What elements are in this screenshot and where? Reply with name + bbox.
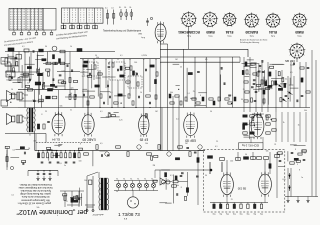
svg-text:25: 25	[45, 111, 47, 113]
svg-text:abf5-42737: abf5-42737	[92, 213, 104, 215]
svg-text:SL: SL	[124, 7, 126, 9]
svg-text:50µ: 50µ	[240, 213, 243, 215]
svg-text:25: 25	[216, 141, 218, 143]
svg-text:5n: 5n	[64, 165, 66, 167]
svg-text:Alle Spannungen gemessen: Alle Spannungen gemessen	[20, 198, 49, 201]
svg-text:25: 25	[243, 89, 245, 91]
svg-text:8: 8	[181, 187, 182, 189]
svg-text:EL84: EL84	[269, 30, 277, 34]
svg-text:0,25: 0,25	[62, 70, 66, 72]
svg-text:0,1: 0,1	[187, 93, 190, 95]
svg-text:0,1: 0,1	[22, 46, 25, 48]
svg-text:30: 30	[46, 151, 48, 153]
svg-text:Drucktastenschalter mit Well: Drucktastenschalter mit Wellen-	[19, 183, 52, 186]
svg-text:50µ: 50µ	[233, 213, 236, 215]
svg-text:10k: 10k	[145, 143, 148, 145]
svg-text:30: 30	[103, 209, 105, 211]
svg-text:2: 2	[260, 68, 261, 70]
svg-text:8: 8	[295, 149, 296, 151]
svg-text:25: 25	[231, 199, 233, 201]
svg-text:100: 100	[79, 161, 82, 163]
svg-text:0,1: 0,1	[100, 111, 103, 113]
svg-text:0,5: 0,5	[33, 141, 36, 143]
svg-text:EABC 80: EABC 80	[82, 137, 95, 141]
svg-text:0,1: 0,1	[230, 95, 233, 97]
svg-text:30: 30	[241, 99, 243, 101]
svg-text:Schaltung der Heizung: Schaltung der Heizung	[240, 41, 259, 44]
svg-text:50k: 50k	[37, 207, 40, 209]
svg-text:100: 100	[230, 160, 233, 162]
svg-text:ECH 81 1-fq: ECH 81 1-fq	[242, 144, 259, 148]
svg-text:5n: 5n	[116, 191, 118, 193]
svg-text:DM: DM	[138, 32, 142, 34]
svg-text:EABC80: EABC80	[245, 30, 258, 34]
svg-text:0,5: 0,5	[205, 59, 208, 61]
svg-text:30: 30	[304, 153, 306, 155]
svg-text:25: 25	[193, 91, 195, 93]
svg-text:SL: SL	[144, 178, 146, 180]
svg-text:10: 10	[140, 92, 142, 94]
svg-text:SL: SL	[119, 7, 121, 9]
svg-text:EL 84: EL 84	[52, 137, 60, 141]
svg-text:EM80: EM80	[206, 30, 215, 34]
svg-text:WA: WA	[2, 60, 6, 63]
svg-text:100: 100	[134, 62, 137, 64]
svg-text:25: 25	[37, 55, 39, 57]
svg-text:5n: 5n	[29, 135, 31, 137]
svg-text:50k: 50k	[71, 87, 74, 89]
svg-text:4-fq: 4-fq	[142, 36, 145, 38]
svg-text:50µ: 50µ	[226, 213, 229, 215]
svg-text:8: 8	[80, 144, 81, 146]
svg-text:0,5: 0,5	[13, 149, 16, 151]
svg-text:50µ: 50µ	[219, 213, 222, 215]
svg-text:100: 100	[84, 180, 87, 182]
svg-text:8: 8	[41, 114, 42, 116]
svg-text:50k: 50k	[266, 150, 269, 152]
svg-text:W.E: W.E	[7, 61, 12, 64]
svg-text:5n: 5n	[301, 177, 303, 179]
svg-text:50k: 50k	[60, 106, 63, 108]
svg-text:0,1: 0,1	[105, 8, 108, 10]
svg-text:1 73/08 73: 1 73/08 73	[118, 212, 140, 217]
svg-text:50µ: 50µ	[260, 213, 263, 215]
svg-text:1k: 1k	[6, 79, 8, 81]
svg-text:5n: 5n	[70, 110, 72, 112]
svg-text:EM80: EM80	[295, 30, 304, 34]
svg-text:0,1: 0,1	[215, 146, 218, 148]
svg-text:5k: 5k	[70, 93, 72, 95]
svg-text:8: 8	[299, 169, 300, 171]
svg-text:SL: SL	[137, 178, 139, 180]
svg-text:8: 8	[200, 95, 201, 97]
svg-text:0,1: 0,1	[11, 194, 14, 196]
svg-text:0,5: 0,5	[100, 143, 103, 145]
svg-text:1-fq: 1-fq	[290, 65, 293, 67]
svg-text:10: 10	[230, 193, 232, 195]
svg-text:50µ: 50µ	[246, 213, 249, 215]
svg-text:1k: 1k	[298, 124, 300, 126]
svg-text:0,1: 0,1	[170, 175, 173, 177]
svg-text:0,25: 0,25	[282, 179, 286, 181]
svg-text:50µ: 50µ	[253, 213, 256, 215]
svg-text:5k: 5k	[58, 146, 60, 148]
svg-text:50µ: 50µ	[213, 213, 216, 215]
svg-text:Tastenbeleuchtung und Skalenla: Tastenbeleuchtung und Skalenlampen	[103, 29, 142, 32]
svg-text:8: 8	[71, 89, 72, 91]
svg-text:0,5: 0,5	[49, 51, 52, 53]
svg-text:0,1: 0,1	[176, 118, 179, 120]
svg-text:25: 25	[274, 144, 276, 146]
svg-text:50k: 50k	[304, 110, 307, 112]
svg-text:0,1: 0,1	[111, 8, 114, 10]
svg-text:1k: 1k	[283, 122, 285, 124]
svg-text:0,1: 0,1	[120, 55, 123, 57]
svg-text:50k: 50k	[33, 100, 36, 102]
svg-text:5n: 5n	[27, 83, 29, 85]
svg-text:50: 50	[245, 154, 247, 156]
svg-text:mit Stahlrohren der E-Serie: mit Stahlrohren der E-Serie.	[21, 195, 50, 198]
svg-text:0,1: 0,1	[285, 79, 288, 81]
svg-text:SB 330: SB 330	[237, 187, 246, 191]
svg-text:EBF 89: EBF 89	[185, 138, 196, 142]
svg-text:50k: 50k	[170, 92, 173, 94]
svg-text:per „Dominante W102”: per „Dominante W102”	[16, 208, 87, 215]
svg-text:0,1: 0,1	[110, 92, 113, 94]
svg-text:0,5: 0,5	[59, 163, 62, 165]
svg-text:SL: SL	[130, 178, 132, 180]
svg-text:50k: 50k	[96, 57, 99, 59]
svg-text:SL: SL	[123, 178, 125, 180]
svg-text:Ansicht der Sockel von der: Ansicht der Sockel von der Seite	[240, 39, 267, 42]
svg-text:0,1: 0,1	[99, 190, 102, 192]
svg-text:0,1: 0,1	[42, 85, 45, 87]
svg-text:SL: SL	[116, 178, 118, 180]
svg-text:SB 333: SB 333	[285, 59, 295, 63]
svg-text:5n: 5n	[248, 74, 250, 76]
svg-text:Sperrkreis fur das Ortssend: Sperrkreis fur das Ortssender-	[20, 189, 51, 192]
svg-text:5n: 5n	[82, 76, 84, 78]
svg-text:30: 30	[45, 46, 47, 48]
svg-text:25: 25	[180, 67, 182, 69]
svg-text:50: 50	[95, 55, 97, 57]
svg-text:0,25: 0,25	[119, 119, 123, 121]
svg-text:EL84: EL84	[225, 30, 233, 34]
svg-text:gebiet. Die Bestuckung erfo: gebiet. Die Bestuckung erfolgt	[20, 192, 51, 195]
svg-text:5: 5	[297, 164, 298, 166]
svg-text:50k: 50k	[18, 203, 21, 205]
svg-text:bereichen und Klangtasten s: bereichen und Klangtasten sowie	[18, 186, 53, 189]
svg-text:30: 30	[28, 148, 30, 150]
svg-text:gegen Chassis mit 10 kOhm/V: gegen Chassis mit 10 kOhm/V	[20, 201, 51, 204]
svg-text:EF 89: EF 89	[140, 137, 149, 141]
svg-text:25: 25	[66, 201, 68, 203]
svg-text:0,5: 0,5	[290, 72, 293, 74]
svg-text:50: 50	[210, 111, 212, 113]
svg-text:30: 30	[205, 175, 207, 177]
svg-text:2k: 2k	[145, 55, 147, 57]
svg-text:1k: 1k	[70, 46, 72, 48]
svg-text:1k: 1k	[219, 203, 221, 205]
svg-text:10: 10	[11, 89, 13, 91]
svg-text:SL: SL	[129, 7, 131, 9]
